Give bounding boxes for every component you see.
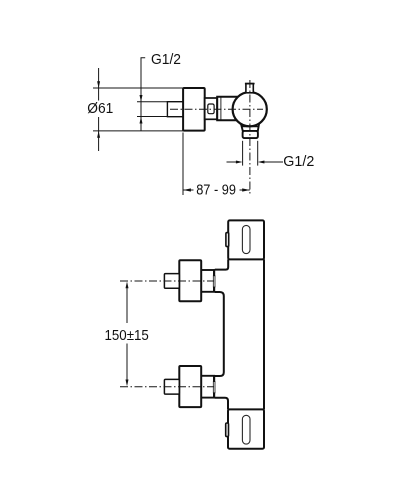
150 arrow down <box>126 380 129 387</box>
outlet G1/2 arrow right-pointing <box>236 161 243 164</box>
bottom neck thin lines <box>212 381 214 393</box>
D61 extension line top <box>93 87 183 89</box>
top handle cap <box>164 274 179 289</box>
leader arrow up (inlet bottom) <box>140 117 143 124</box>
centerline horizontal (top view) <box>170 108 263 110</box>
bottom plate slot <box>242 415 250 444</box>
outlet fitting shoulder <box>241 124 259 131</box>
column right edge <box>263 259 265 409</box>
bottom plate clip <box>226 423 229 437</box>
D61 extension line bottom <box>93 130 183 132</box>
svg-text:150±15: 150±15 <box>105 328 149 344</box>
outlet G1/2 extension line right <box>257 141 259 166</box>
leader G1/2 inlet <box>141 58 145 131</box>
connector ring <box>208 104 214 114</box>
87-99 dimension line left <box>183 189 193 191</box>
thermostat body circle <box>233 92 267 126</box>
top handle knob <box>179 260 201 301</box>
outlet G1/2 extension line left <box>242 141 244 166</box>
150 dimension line upper <box>126 284 128 324</box>
bottom handle cap <box>164 379 179 394</box>
svg-text:Ø61: Ø61 <box>87 101 113 117</box>
D61 arrow down <box>97 81 100 88</box>
inlet pipe <box>167 102 183 117</box>
outlet G1/2 dim tail left <box>227 161 237 163</box>
svg-text:G1/2: G1/2 <box>151 52 181 68</box>
valve neck inner line <box>220 97 222 120</box>
svg-text:87 - 99: 87 - 99 <box>196 182 236 198</box>
top plate slot <box>242 225 250 253</box>
D61 dimension line lower <box>98 117 100 151</box>
wall flange <box>183 88 205 131</box>
outlet fitting inner line <box>242 126 259 128</box>
svg-text:G1/2: G1/2 <box>283 154 314 170</box>
bottom neck <box>201 376 215 398</box>
top neck <box>201 270 215 292</box>
87-99 arrow right <box>242 188 250 191</box>
87-99 dimension line right <box>240 189 250 191</box>
valve neck <box>217 97 240 121</box>
top mounting plate <box>228 220 264 259</box>
centerline top handle <box>120 280 214 282</box>
bottom handle knob <box>179 366 201 407</box>
150 dimension line lower <box>126 344 128 385</box>
connector nut <box>205 98 217 119</box>
centerline vertical (top view) <box>249 80 251 195</box>
top plate clip <box>226 233 229 247</box>
top neck thin lines <box>212 275 214 287</box>
top neck end bars <box>213 269 215 276</box>
column mid left profile <box>215 292 224 376</box>
D61 dimension line upper <box>98 68 100 101</box>
87-99 extension line (wall face) <box>182 133 184 196</box>
outlet G1/2 arrow left-pointing <box>258 161 265 164</box>
outlet G1/2 dim tail right <box>264 161 283 163</box>
bottom neck end bars <box>213 375 215 382</box>
stem knob cap line <box>245 83 255 85</box>
150 arrow up <box>126 282 129 289</box>
D61 arrow up <box>97 131 100 138</box>
inlet pipe extension line bottom <box>137 116 167 118</box>
leader arrow down (inlet top) <box>140 95 143 102</box>
inlet pipe extension line top <box>137 101 167 103</box>
centerline bottom handle <box>120 386 214 388</box>
outlet fitting nut <box>243 131 258 138</box>
column upper left profile <box>215 259 228 269</box>
column lower left profile <box>215 398 228 410</box>
87-99 arrow left <box>183 188 191 191</box>
bottom mounting plate <box>228 409 264 448</box>
stem knob <box>246 84 253 93</box>
